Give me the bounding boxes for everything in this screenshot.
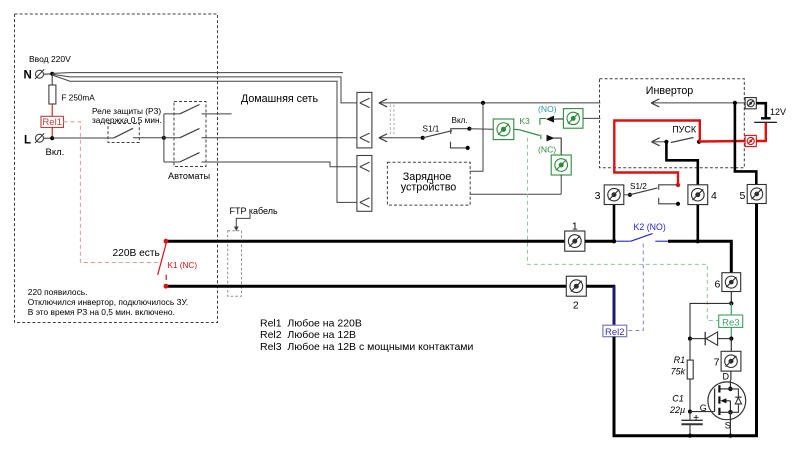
wire N line 1 — [52, 72, 343, 75]
protection relay contact RZ — [108, 124, 139, 143]
node: bus junction at connector 4 — [696, 239, 700, 243]
svg-text:7: 7 — [714, 356, 720, 368]
K3 blade — [520, 130, 540, 136]
contact tick (NC) — [540, 135, 542, 140]
K2 link dashed (blue) — [627, 244, 643, 331]
svg-text:Инвертор: Инвертор — [646, 85, 694, 97]
connector 4 — [688, 185, 708, 205]
svg-text:220В есть: 220В есть — [113, 248, 160, 259]
svg-text:Ввод 220V: Ввод 220V — [29, 54, 71, 64]
svg-text:S1/1: S1/1 — [423, 124, 440, 133]
socket block lower — [357, 156, 372, 212]
bus wire upper (220V line 1) — [166, 240, 565, 243]
svg-text:L: L — [24, 135, 31, 147]
connector 3 — [604, 185, 624, 205]
wire ПУСК start loop (red) — [614, 121, 700, 186]
resistor R1 — [687, 339, 693, 412]
FTP pointer arrow — [236, 214, 250, 227]
plug arrow (NC) — [547, 135, 555, 142]
svg-text:Вкл.: Вкл. — [452, 116, 468, 125]
breaker contact 2 — [164, 128, 200, 137]
node: L junction — [50, 136, 54, 140]
wire ПУСК to connector 4 — [666, 142, 697, 185]
bus wire lower to Rel2 — [586, 285, 615, 288]
svg-text:3: 3 — [595, 190, 601, 202]
wire gate — [690, 411, 715, 413]
wire source to bus — [729, 412, 731, 437]
charger unit (Зарядное устройство) — [387, 162, 470, 205]
wire connector to battery + — [756, 103, 766, 117]
breaker feed riser — [163, 114, 165, 162]
relay contact K1 (NC) — [158, 242, 167, 280]
flyback diode — [690, 332, 731, 345]
wire S1/1 to K3 plug — [469, 128, 493, 131]
wire inverter output — [651, 102, 745, 104]
bus wire upper to connector 6 — [668, 241, 731, 273]
switch S1/2 — [624, 185, 680, 206]
wire to R1 branch — [690, 303, 731, 338]
svg-text:S1/2: S1/2 — [630, 182, 647, 191]
svg-text:Rel2: Rel2 — [605, 327, 625, 338]
svg-text:6: 6 — [714, 278, 720, 290]
bus wire lower (220V line 2) — [166, 285, 566, 288]
node: gate junction — [688, 410, 692, 414]
svg-text:Домашняя сеть: Домашняя сеть — [241, 93, 318, 105]
wire RZ to junction — [133, 137, 164, 139]
connector 5 — [747, 185, 766, 204]
enclosure: inverter box — [600, 79, 745, 168]
wire N line 2 — [52, 74, 357, 103]
node: C1 to bus — [688, 434, 692, 438]
connector 2 — [566, 276, 586, 296]
connector K3 NC (green) — [551, 155, 571, 175]
node: K1 top (red) — [164, 239, 169, 244]
svg-text:K1 (NC): K1 (NC) — [168, 261, 198, 270]
node: Re3 top junction — [729, 301, 733, 305]
circuit breakers box (Автоматы) — [174, 102, 206, 167]
plug arrow upper — [379, 99, 387, 107]
node: inverter output junction — [733, 101, 737, 105]
relay coil Re3 (green) — [719, 303, 743, 338]
wire Rel2 to bottom bus — [613, 337, 616, 437]
bus wire upper cont. — [585, 240, 616, 243]
svg-text:устройство: устройство — [401, 181, 457, 193]
connector 7 — [721, 351, 741, 371]
K1 link dashed (red) — [64, 122, 159, 263]
enclosure: mains input section — [15, 14, 218, 323]
capacitor C1 — [681, 412, 702, 437]
svg-text:Вкл.: Вкл. — [46, 147, 65, 158]
node: N junction — [50, 72, 54, 76]
svg-text:75k: 75k — [671, 366, 686, 376]
svg-text:D: D — [723, 371, 730, 381]
relay coil Rel1 — [41, 116, 64, 128]
svg-text:C1: C1 — [672, 393, 684, 403]
connector inverter - (small red) — [745, 135, 756, 146]
svg-text:(NO): (NO) — [538, 104, 557, 114]
wire L to RZ contact — [52, 137, 114, 139]
wire fuse to Rel1 (red) — [51, 104, 53, 116]
wire breaker2 to socket — [202, 137, 357, 139]
wire to Rel2 coil (navy) — [613, 286, 616, 325]
plug arrow (NO) — [546, 116, 554, 123]
wire charger output — [470, 103, 483, 171]
svg-text:K3: K3 — [520, 116, 531, 126]
svg-text:задержка 0,5 мин.: задержка 0,5 мин. — [92, 115, 162, 125]
svg-text:5: 5 — [739, 190, 745, 202]
wire charger input from K3 NC — [470, 193, 561, 195]
svg-text:K2 (NO): K2 (NO) — [634, 222, 666, 232]
svg-text:220 появилось.: 220 появилось. — [28, 287, 88, 297]
svg-text:FTP кабель: FTP кабель — [230, 206, 278, 216]
svg-text:22µ: 22µ — [669, 405, 685, 415]
relay coil Rel2 — [603, 325, 627, 338]
wire connector 4 to bus — [696, 205, 699, 242]
cable tie dashes — [389, 105, 391, 136]
svg-text:1: 1 — [572, 221, 578, 233]
wire NC connector to charger — [560, 175, 562, 194]
svg-text:Автоматы: Автоматы — [168, 171, 210, 181]
svg-text:Rel1: Rel1 — [42, 117, 62, 128]
svg-text:Rel1 Любое на 220В: Rel1 Любое на 220В — [260, 318, 362, 330]
wire N line 3 — [52, 75, 357, 202]
connector inverter + (small) — [745, 98, 756, 109]
breaker contact 1 — [164, 105, 232, 114]
fuse F 250mA — [49, 85, 56, 104]
wire inverter junction down to connector 5 — [735, 103, 756, 184]
terminal L — [24, 133, 50, 146]
wire plug to inverter edge — [379, 102, 600, 104]
node: diode cathode junction — [688, 337, 692, 341]
node: breaker feed junction — [162, 136, 166, 140]
svg-text:N: N — [24, 70, 32, 82]
svg-text:В это время РЗ на 0,5 мин. вкл: В это время РЗ на 0,5 мин. включено. — [28, 307, 175, 317]
wire breaker3 to socket — [202, 162, 357, 167]
transistor Q1 (MOSFET) — [708, 371, 746, 420]
bottom bus wire — [613, 434, 758, 437]
FTP cable marker — [228, 231, 242, 296]
wire NO arrow to connector — [553, 118, 563, 120]
node: S1/2 NO contact (red) — [676, 183, 680, 187]
wire connector 6 to Re3 — [730, 292, 732, 304]
wire K3 box to blade — [514, 128, 520, 131]
wire NC arrow to connector — [554, 138, 562, 155]
wire Rel1 to L (red) — [51, 128, 53, 139]
socket block upper — [357, 92, 372, 147]
connector 6 — [722, 273, 741, 292]
connector K3 NO (green) — [563, 109, 583, 129]
wire N to fuse — [51, 76, 53, 86]
svg-text:Rel2 Любое на 12В: Rel2 Любое на 12В — [260, 329, 356, 341]
battery 12V — [754, 118, 777, 122]
node: charger output junction — [481, 101, 485, 105]
wire red connector to ПУСК (red) — [699, 140, 745, 143]
inverter output plug arrow — [651, 99, 659, 107]
switch S1/1 — [421, 127, 472, 150]
plug arrow lower — [379, 134, 387, 142]
wire plug to S1/1 — [379, 137, 423, 139]
contact bracket (NO) — [540, 119, 546, 125]
node: K1 bottom (red) — [164, 284, 169, 289]
node: Re3 bottom junction — [729, 337, 733, 341]
connector 1 — [565, 231, 585, 251]
svg-text:R1: R1 — [674, 355, 686, 365]
svg-text:2: 2 — [573, 299, 579, 311]
wire battery - to red connector (red) — [756, 123, 766, 141]
terminal N — [24, 69, 51, 81]
node: source to bus — [728, 434, 732, 438]
breaker contact 3 — [164, 153, 200, 162]
K3 link dashed (green) — [528, 138, 720, 321]
wire connector 3 to bus — [613, 205, 616, 242]
connector K3 common (green) — [493, 119, 514, 140]
wire connector 5 to right bus — [755, 203, 758, 437]
relay contact K2 (NO) — [616, 234, 669, 242]
wire NO connector to inverter edge — [583, 117, 600, 119]
wire Re3 to connector 7 — [730, 339, 732, 352]
svg-text:F 250mA: F 250mA — [62, 94, 96, 103]
svg-text:Re3: Re3 — [722, 317, 739, 328]
svg-text:(NC): (NC) — [538, 144, 556, 154]
start switch ПУСК — [652, 138, 702, 146]
svg-text:Отключился инвертор, подключил: Отключился инвертор, подключилось ЗУ. — [28, 297, 188, 307]
svg-text:ПУСК: ПУСК — [672, 125, 697, 135]
svg-text:Rel3 Любое на 12В с мощными к: Rel3 Любое на 12В с мощными контактами — [260, 341, 474, 353]
node: bus junction at connector 3 — [612, 239, 616, 243]
svg-text:4: 4 — [711, 190, 717, 202]
svg-text:12V: 12V — [770, 107, 786, 117]
